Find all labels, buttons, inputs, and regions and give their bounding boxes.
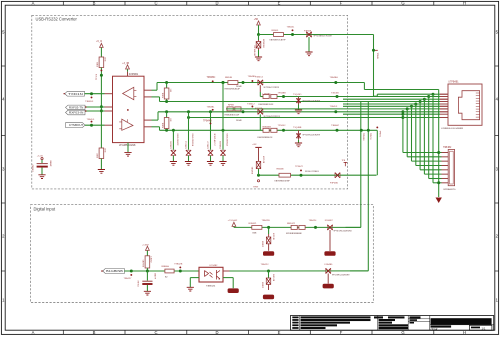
svg-text:B22BH4B7%: B22BH4B7% — [444, 189, 456, 191]
testpoint TP12 — [344, 162, 347, 166]
wire w2 to connector — [363, 83, 365, 90]
title block — [291, 316, 494, 331]
svg-text:FE42B9B3/3L5F: FE42B9B3/3L5F — [259, 104, 275, 106]
ground GND5 — [170, 162, 177, 166]
wire w11 (shield) — [259, 174, 377, 176]
svg-text:RB34Z2: RB34Z2 — [287, 223, 296, 225]
diode D1 stub — [258, 35, 260, 41]
svg-text:T1Q4BB: T1Q4BB — [293, 127, 302, 129]
svg-text:B1B4B5: B1B4B5 — [143, 259, 145, 267]
node din j1 — [130, 270, 133, 273]
wire w7 (A in) — [152, 119, 159, 121]
connector flag RXD — [66, 123, 86, 128]
wire to ground — [100, 159, 102, 170]
svg-text:T1B4L3: T1B4L3 — [330, 106, 338, 108]
svg-text:C9UB2: C9UB2 — [138, 280, 140, 287]
node fan junction 5 — [414, 103, 417, 106]
op-amp IC1 LTC2855 — [113, 76, 145, 142]
wire fan to RJ45 pin 1 — [433, 93, 440, 95]
node junction rail top — [100, 74, 103, 77]
svg-text:2B14F: 2B14F — [236, 86, 243, 88]
svg-text:RB34B: RB34B — [225, 77, 232, 79]
svg-text:F1B4B7: F1B4B7 — [325, 220, 334, 222]
svg-text:B: B — [93, 330, 96, 335]
capacitor C6 — [222, 81, 225, 84]
svg-text:RB305: RB305 — [272, 30, 279, 32]
wire fan to RJ45 pin 6 — [412, 105, 441, 107]
node w10 j2 — [372, 49, 375, 52]
wire fan vertical 2 — [428, 97, 430, 179]
svg-text:TPBT/L: TPBT/L — [378, 131, 380, 139]
svg-text:+LB2: +LB2 — [252, 144, 256, 146]
svg-text:D: D — [215, 1, 218, 6]
svg-text:T9B4Z4: T9B4Z4 — [309, 220, 318, 222]
node w1 j1 — [222, 81, 225, 84]
wire w10 vertical — [373, 35, 375, 97]
svg-text:IC3H4B1: IC3H4B1 — [129, 74, 139, 76]
svg-text:C3B447: C3B447 — [208, 140, 210, 149]
svg-text:T3G4IB: T3G4IB — [331, 92, 339, 94]
node fan junction 6 — [410, 105, 413, 108]
wire fan row 9 — [343, 113, 403, 115]
svg-text:9FB7LAB.57: 9FB7LAB.57 — [213, 134, 216, 147]
svg-text:KBYB1B4: KBYB1B4 — [262, 39, 264, 47]
svg-text:RBB4A: RBB4A — [162, 265, 170, 268]
node RXD junction — [90, 124, 93, 127]
wire fan vertical 5 — [415, 104, 417, 166]
wire fan to RJ45 pin 5 — [416, 103, 440, 105]
node din j3 — [179, 270, 182, 273]
svg-text:R4BB: R4BB — [162, 122, 164, 128]
resistor R8 pullup — [145, 256, 150, 268]
node w7 j1 — [242, 110, 245, 113]
svg-text:GB2L3B9CA: GB2L3B9CA — [225, 134, 228, 147]
svg-text:T3B4BH: T3B4BH — [330, 77, 339, 79]
wire IC ground stub — [127, 143, 129, 153]
svg-text:HSBU8/BO014F: HSBU8/BO014F — [225, 114, 240, 116]
node fan junction 2 — [427, 95, 430, 98]
svg-text:9F/GL/C22B4/5: 9F/GL/C22B4/5 — [305, 171, 320, 173]
filter F4 — [335, 173, 340, 178]
ground GND11 — [38, 175, 45, 179]
ground bar GND16 — [263, 295, 274, 300]
node w1 j3 — [334, 81, 337, 84]
node TXD junction — [90, 92, 93, 95]
svg-text:T3BML3: T3BML3 — [85, 101, 94, 103]
svg-text:TPB44B: TPB44B — [203, 121, 212, 123]
svg-text:KBYB/B9OCB79F: KBYB/B9OCB79F — [270, 40, 287, 42]
wire RS485-B — [85, 110, 105, 112]
svg-text:RXF03-TN: RXF03-TN — [69, 106, 84, 110]
connector flag DIGIN — [103, 269, 125, 274]
svg-text:C: C — [154, 330, 157, 335]
wire fan vertical 7 — [406, 109, 408, 157]
wire +5V rail — [100, 68, 102, 149]
svg-text:TXD1N: TXD1N — [68, 94, 83, 96]
capacitor C11 — [268, 271, 270, 278]
wire shield rail — [438, 90, 440, 198]
ground GND4 — [298, 140, 300, 143]
svg-text:D: D — [215, 330, 218, 335]
ground GND3 — [298, 105, 300, 111]
svg-text:9FT2GB/G23 9/4.B9: 9FT2GB/G23 9/4.B9 — [314, 36, 333, 38]
node din2 j1 — [267, 226, 270, 229]
svg-text:1/1: 1/1 — [482, 326, 486, 330]
wire din1 — [124, 270, 199, 272]
node fan junction 7 — [406, 107, 409, 110]
svg-text:F3P4B6: F3P4B6 — [330, 183, 339, 185]
svg-text:E: E — [278, 330, 281, 335]
node w3 j1 — [282, 95, 285, 98]
node w11 j0 — [257, 174, 260, 177]
svg-text:CTSBOUT: CTSBOUT — [69, 125, 84, 127]
svg-text:TPB4B9: TPB4B9 — [362, 133, 364, 141]
svg-text:B7E: B7E — [104, 149, 106, 154]
node fan junction 8 — [401, 110, 404, 113]
svg-text:TP34Z2: TP34Z2 — [295, 166, 304, 168]
capacitor C4 — [187, 110, 190, 113]
wire vbus1 — [360, 102, 362, 228]
testpoint TP15 — [179, 266, 181, 268]
node w11 j1 — [300, 174, 303, 177]
node w3 j2 — [336, 95, 339, 98]
svg-text:1BBMF: 1BBMF — [49, 160, 51, 167]
svg-text:TP1J6: TP1J6 — [96, 73, 98, 80]
testpoint TP2 — [91, 96, 93, 98]
connector flag RS485-B — [66, 110, 86, 115]
ground GND13 — [144, 291, 151, 295]
svg-text:C3B4B2: C3B4B2 — [33, 164, 35, 172]
module box USB-RS232 converter — [32, 15, 348, 189]
svg-text:M9TL3B: M9TL3B — [262, 156, 264, 164]
node rail j2 — [437, 181, 440, 184]
testpoint TP10 ring — [257, 180, 259, 182]
wire w8 — [189, 117, 403, 119]
svg-text:R1B2: R1B2 — [97, 61, 99, 67]
svg-text:TPB9: TPB9 — [253, 187, 259, 189]
testpoint TP1 — [100, 69, 102, 71]
wire vbus2 — [367, 102, 369, 271]
wire fan vertical 3 — [423, 99, 425, 174]
connector flag TXD — [65, 91, 85, 96]
svg-text:T9B4Z7: T9B4Z7 — [124, 278, 133, 280]
ground GND10 — [305, 52, 312, 56]
svg-text:C: C — [154, 1, 157, 6]
svg-text:F1B4B5: F1B4B5 — [325, 264, 334, 266]
inductor L3 — [259, 114, 261, 130]
svg-text:OC34B2: OC34B2 — [209, 265, 218, 267]
svg-text:TP344C: TP344C — [278, 125, 286, 127]
svg-text:R3BB: R3BB — [162, 92, 164, 98]
ground GND2 — [124, 152, 131, 156]
svg-text:RXF03-IN: RXF03-IN — [69, 111, 84, 115]
svg-text:C3B4B5: C3B4B5 — [171, 140, 173, 149]
node w7 j2 — [334, 110, 337, 113]
wire RXD — [85, 124, 105, 126]
svg-text:KBYB/B9B3B6BF: KBYB/B9B3B6BF — [286, 233, 303, 235]
svg-text:T3B4L5: T3B4L5 — [87, 119, 95, 121]
ground GND14 — [187, 287, 194, 291]
wire fan vertical 6 — [411, 106, 413, 161]
wire fan to RJ45 pin 2 — [429, 96, 440, 98]
svg-text:C3B4B8: C3B4B8 — [220, 140, 222, 149]
resistor R4 termination — [165, 110, 168, 113]
svg-text:9FT23HC22DR2R9: 9FT23HC22DR2R9 — [303, 134, 321, 136]
node w1 j2 — [242, 81, 245, 84]
svg-text:2B14F: 2B14F — [236, 120, 243, 122]
svg-text:T9B4B2: T9B4B2 — [443, 147, 452, 149]
svg-text:A: A — [32, 1, 35, 6]
wire fan to RJ45 pin 7 — [407, 108, 440, 110]
testpoint TP14 — [130, 274, 132, 276]
svg-text:K9TL3B: K9TL3B — [272, 233, 274, 241]
wire TXD — [85, 93, 105, 95]
svg-text:USB-RS232 Converter: USB-RS232 Converter — [36, 17, 78, 22]
svg-text:T1Q43O: T1Q43O — [293, 94, 302, 96]
resistor R3 termination — [165, 81, 168, 84]
node dout j1 — [267, 270, 270, 273]
svg-text:+3_3B: +3_3B — [122, 63, 129, 65]
connector SV1 pins — [442, 152, 449, 154]
ground GND1 — [98, 170, 105, 174]
node w10 j0 — [257, 33, 260, 36]
svg-text:+5B: +5B — [254, 19, 259, 21]
wire w10 to fan — [374, 95, 378, 97]
wire w6 — [226, 108, 407, 110]
svg-text:drak: drak — [431, 327, 438, 331]
svg-text:F: F — [340, 1, 343, 6]
IC1 right pins — [144, 89, 152, 91]
svg-text:T3B44L: T3B44L — [287, 27, 295, 29]
node din j2 — [146, 270, 149, 273]
wire F1 drop — [259, 85, 261, 92]
wire w4 (Z out) — [152, 96, 160, 98]
ground bar GND19 — [324, 251, 335, 256]
svg-text:T3B4ZC: T3B4ZC — [261, 264, 270, 266]
svg-text:T3B4A7: T3B4A7 — [331, 124, 340, 127]
wire RS485-A — [85, 106, 105, 108]
testpoint TP13 — [376, 126, 378, 128]
connector flag RS485-A — [66, 105, 86, 110]
node w8 j0 — [187, 116, 190, 119]
svg-text:UTPB4B1: UTPB4B1 — [448, 82, 459, 84]
wire w10 — [259, 34, 374, 36]
ground bar GND18 — [263, 251, 274, 256]
wire w3 — [277, 96, 429, 98]
svg-text:B9YBB0: B9YBB0 — [252, 167, 254, 174]
svg-text:L3BH2: L3BH2 — [150, 256, 152, 263]
node w9 j1 — [282, 129, 285, 132]
wire fan row 10 — [401, 116, 404, 119]
svg-text:E: E — [278, 1, 281, 6]
wire fan vertical 8 — [402, 112, 404, 153]
svg-text:T3B4BC: T3B4BC — [207, 77, 216, 79]
svg-text:+C3.3vB2: +C3.3vB2 — [228, 220, 238, 222]
optocoupler OC1 — [199, 267, 223, 282]
svg-text:B7E: B7E — [104, 58, 106, 63]
node junction rail B — [100, 109, 103, 112]
node fan junction 1 — [432, 93, 435, 96]
svg-text:RP9B: RP9B — [228, 104, 234, 106]
node fan junction 4 — [419, 100, 422, 103]
svg-text:D3B0B: D3B0B — [263, 240, 265, 247]
svg-text:T3BB1Z4: T3BB1Z4 — [206, 286, 216, 288]
wire F6 drop — [329, 230, 331, 251]
wire opto out — [223, 270, 230, 272]
svg-text:T1B4L2: T1B4L2 — [247, 104, 255, 106]
wire w1 (Y out) — [152, 89, 158, 91]
wire fan to RJ45 pin 3 — [424, 98, 440, 100]
svg-text:T9B4ZB: T9B4ZB — [262, 220, 271, 222]
svg-text:LCMB8LE-J/6LG/6B8W: LCMB8LE-J/6LG/6B8W — [441, 128, 463, 130]
wire w9 (B in) — [152, 126, 160, 128]
svg-text:R2B7: R2B7 — [97, 152, 99, 158]
node vbus1 junction — [360, 129, 363, 132]
svg-text:9HCL3B: 9HCL3B — [272, 274, 274, 282]
svg-text:TPB4B: TPB4B — [376, 53, 378, 60]
svg-text:HSHZ0H3CB14F: HSHZ0H3CB14F — [225, 89, 241, 91]
svg-text:B: B — [93, 1, 96, 6]
node din2 j2 — [314, 226, 317, 229]
svg-text:+C3B7: +C3B7 — [142, 244, 150, 246]
ground GND8 — [219, 162, 226, 166]
svg-text:GB2L3B9CF: GB2L3B9CF — [176, 134, 178, 147]
node w10 j1 — [291, 33, 294, 36]
ground GND6 — [185, 162, 192, 166]
svg-text:9FT23HC22DR2R9: 9FT23HC22DR2R9 — [332, 275, 350, 277]
ground GND9 — [258, 50, 260, 57]
svg-text:Digital Input: Digital Input — [34, 206, 56, 211]
svg-text:9FT23HC22DR2R9: 9FT23HC22DR2R9 — [303, 101, 321, 103]
capacitor C3 — [172, 129, 175, 132]
svg-text:9FT23E/C22R2/3: 9FT23E/C22R2/3 — [264, 87, 280, 89]
svg-text:D3B0B: D3B0B — [262, 281, 264, 288]
capacitor C12 — [268, 227, 270, 234]
connector X1 pins — [440, 93, 448, 95]
capacitor C10 — [146, 271, 148, 281]
svg-text:G: G — [401, 1, 404, 6]
node c4 cross — [222, 129, 225, 132]
capacitor C7 stub — [308, 37, 310, 52]
node w9 j2 — [336, 129, 339, 132]
ground GND7 — [207, 162, 214, 166]
svg-text:B1GBINB: B1GBINB — [106, 271, 123, 273]
svg-text:RB34B: RB34B — [277, 168, 284, 170]
resistor R2 — [99, 148, 104, 159]
wire opto emitter — [223, 277, 233, 279]
wire fan to RJ45 pin 8 — [403, 111, 440, 113]
resistor R1 — [99, 57, 104, 68]
capacitor C5 — [209, 110, 212, 113]
module box Digital Input — [31, 205, 374, 303]
wire fan vertical 4 — [419, 102, 421, 170]
wire w5 extra rows — [343, 98, 424, 100]
svg-text:2BB7F: 2BB7F — [153, 273, 155, 280]
wire fan vertical 1 — [432, 94, 434, 183]
svg-text:9FT6/1HC22DR2R3: 9FT6/1HC22DR2R3 — [334, 230, 353, 232]
svg-text:KBYB9B3O67BF: KBYB9B3O67BF — [275, 181, 291, 183]
wire opto cathode — [190, 277, 199, 279]
wire F5 drop — [327, 274, 329, 284]
svg-text:B6B: B6B — [253, 233, 257, 235]
node fan junction 3 — [423, 98, 426, 101]
wire din2 — [234, 226, 361, 228]
ground bar GND15 — [228, 288, 239, 293]
svg-text:T9B4ZB: T9B4ZB — [174, 264, 183, 266]
svg-text:T3B4BL: T3B4BL — [207, 106, 216, 108]
node rail j1 — [437, 151, 440, 154]
svg-text:H: H — [463, 1, 466, 6]
svg-text:R3B4Z1: R3B4Z1 — [249, 223, 258, 225]
svg-text:TP34BB: TP34BB — [278, 92, 287, 94]
svg-text:F1B4C2: F1B4C2 — [255, 76, 264, 78]
ground bar GND17 — [323, 284, 334, 289]
svg-text:MBTBRL/B9: MBTBRL/B9 — [254, 45, 256, 56]
svg-text:GB4LCB9CA: GB4LCB9CA — [191, 134, 194, 147]
wire fan to RJ45 pin 4 — [420, 101, 440, 103]
inductor L1 — [260, 96, 263, 98]
svg-text:TPB7/6: TPB7/6 — [369, 133, 371, 141]
svg-text:FE42B2B3B6.5F: FE42B2B3B6.5F — [258, 137, 274, 139]
capacitor C8 — [41, 160, 43, 163]
svg-text:+5_IB: +5_IB — [37, 155, 43, 157]
node junction rail A — [100, 105, 103, 108]
node vbus2 junction — [367, 129, 370, 132]
ground arrow GND12 — [436, 198, 442, 204]
svg-text:+5_I0: +5_I0 — [96, 41, 103, 43]
svg-text:C3B4C2: C3B4C2 — [186, 140, 188, 149]
svg-text:A: A — [32, 330, 35, 335]
capacitor C9 chain — [258, 169, 260, 175]
